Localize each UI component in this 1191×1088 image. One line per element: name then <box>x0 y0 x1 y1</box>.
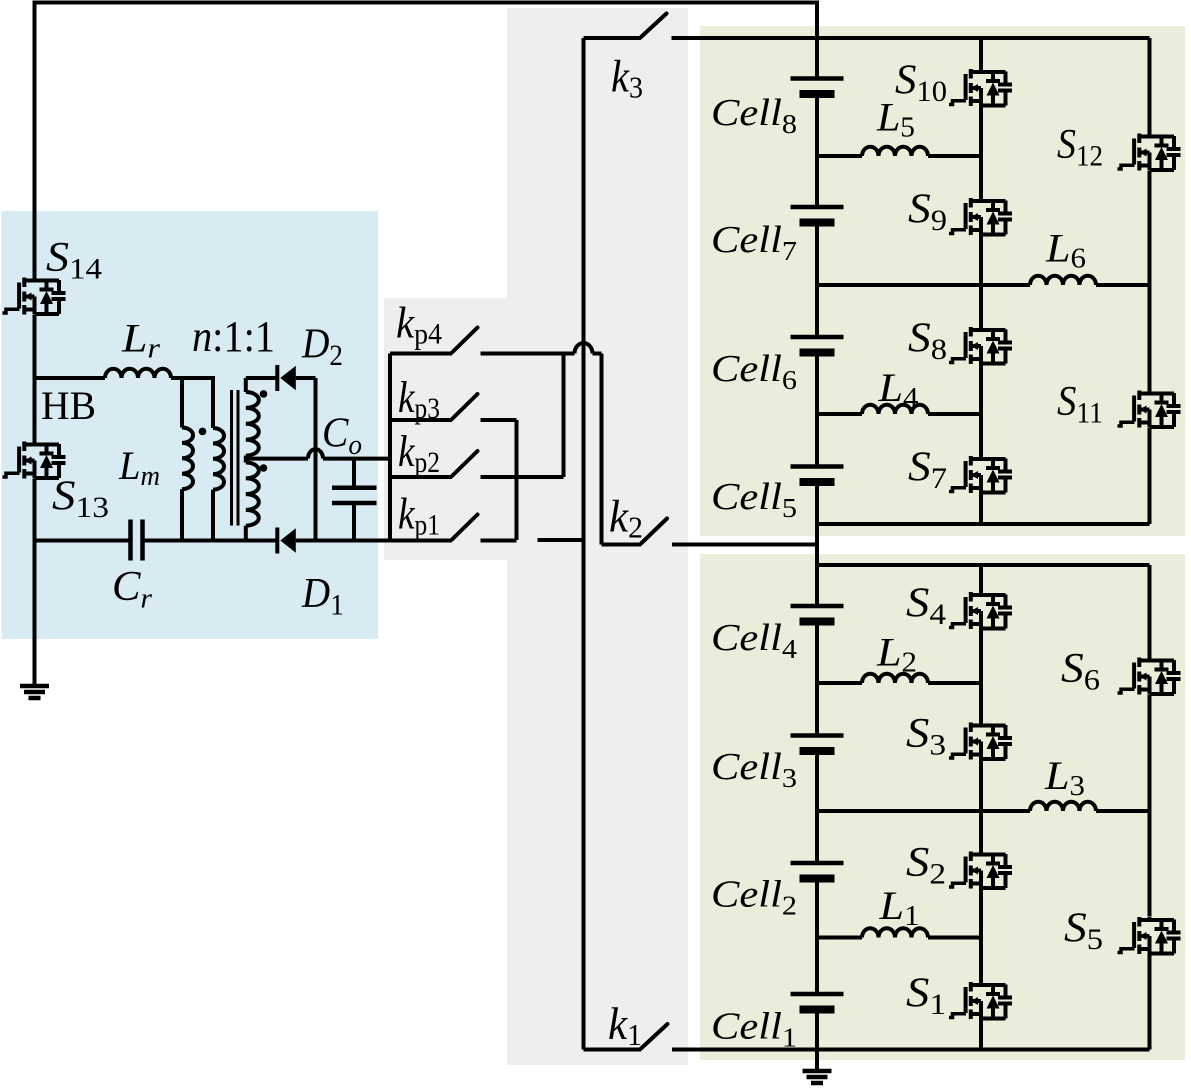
wire: lower module top rail <box>817 563 1150 567</box>
svg-text:n:1:1: n:1:1 <box>192 312 275 361</box>
MOSFET S3 <box>949 723 1012 760</box>
wire: D1 to kp bus <box>296 539 390 543</box>
wire: lower module right rail <box>1148 565 1152 1050</box>
switch kp3 <box>390 418 452 422</box>
ground (stack bottom) <box>803 1071 832 1083</box>
MOSFET S5 <box>1118 917 1181 954</box>
primary polarity dot <box>199 428 207 436</box>
transformer core <box>232 390 239 526</box>
MOSFET S13 <box>3 442 66 479</box>
wire: kp1 out <box>481 539 517 543</box>
inductor L6 <box>817 283 1030 287</box>
wire: converter bottom rail (S13 to Cr) <box>35 539 131 543</box>
transformer primary winding <box>211 376 215 428</box>
switch kp4 <box>390 352 452 356</box>
wire: Cr to D1 <box>143 539 278 543</box>
wire: secondary top to D2 <box>246 376 277 380</box>
region: converter block (light blue) <box>2 211 379 639</box>
svg-text:HB: HB <box>41 383 96 428</box>
region: pack-switch strip k1-k3 (gray) <box>507 8 688 1065</box>
switch kp1 <box>390 539 452 543</box>
wire: Lr to primary <box>171 376 213 380</box>
region: upper battery module (green) <box>700 26 1185 536</box>
inductor L5 <box>817 154 862 158</box>
battery Cell7 <box>791 207 844 223</box>
inductor L3 <box>817 809 1030 813</box>
wire: kp4 out with hop over k-line <box>481 352 575 356</box>
switch k1 <box>584 1048 642 1052</box>
node: kp bus vertical <box>388 354 392 541</box>
wire: left rail (converter leg) <box>33 1 37 278</box>
battery Cell3 <box>791 736 844 752</box>
region: selection-switch block kp (gray) <box>384 298 510 560</box>
secondary dot (bottom) <box>260 464 268 472</box>
MOSFET S1 <box>949 982 1012 1019</box>
battery Cell8 <box>791 79 844 95</box>
inductor L2 <box>817 681 862 685</box>
wire: kp3 out <box>481 418 517 422</box>
battery Cell2 <box>791 863 844 879</box>
MOSFET S7 <box>949 456 1012 493</box>
wire: upper module inner column <box>979 38 983 524</box>
secondary dot (top) <box>260 390 268 398</box>
battery Cell5 <box>791 467 844 483</box>
ground (converter) <box>20 686 49 698</box>
battery Cell6 <box>791 337 844 353</box>
wire: upper module bottom rail <box>817 522 1150 526</box>
capacitor Co <box>352 459 356 488</box>
wire: stub to pack line <box>538 538 584 542</box>
wire: kp4/kp2 tie vertical <box>562 354 566 478</box>
capacitor Cr <box>131 520 143 561</box>
wire: top bus from converter to pack top <box>35 1 818 5</box>
MOSFET S14 <box>3 278 66 315</box>
inductor L4 <box>817 412 862 416</box>
switch kp2 <box>390 475 452 479</box>
MOSFET S2 <box>949 852 1012 889</box>
inductor Lm (magnetizing) <box>180 376 184 428</box>
wire: D2 to rectifier join <box>296 376 316 380</box>
MOSFET S4 <box>949 592 1012 629</box>
wire: center-tap output with hop over join <box>246 457 308 461</box>
MOSFET S6 <box>1118 658 1181 695</box>
inductor Lr <box>105 369 171 378</box>
MOSFET S8 <box>949 327 1012 364</box>
diode D1 <box>275 528 279 554</box>
inductor L1 <box>817 936 862 940</box>
diode D2 <box>275 365 279 391</box>
wire: kp2 out <box>481 475 564 479</box>
wire: main k-line vertical <box>582 38 586 1050</box>
wire: upper module right rail <box>1148 38 1152 524</box>
wire: lower module inner column <box>979 565 983 1050</box>
wire: half-bridge node HB to transformer <box>35 376 106 380</box>
wire: battery stack vertical segments <box>815 1 819 79</box>
battery Cell4 <box>791 606 844 622</box>
transformer secondary windings (center tapped) <box>244 378 248 392</box>
MOSFET S9 <box>949 198 1012 235</box>
MOSFET S12 <box>1118 134 1181 171</box>
switch k2 <box>600 354 604 545</box>
wire: rectifier join vertical <box>314 378 318 541</box>
battery Cell1 <box>791 994 844 1010</box>
MOSFET S10 <box>949 69 1012 106</box>
MOSFET S11 <box>1118 391 1181 428</box>
region: lower battery module (green) <box>700 554 1185 1060</box>
switch k3 <box>584 36 642 40</box>
